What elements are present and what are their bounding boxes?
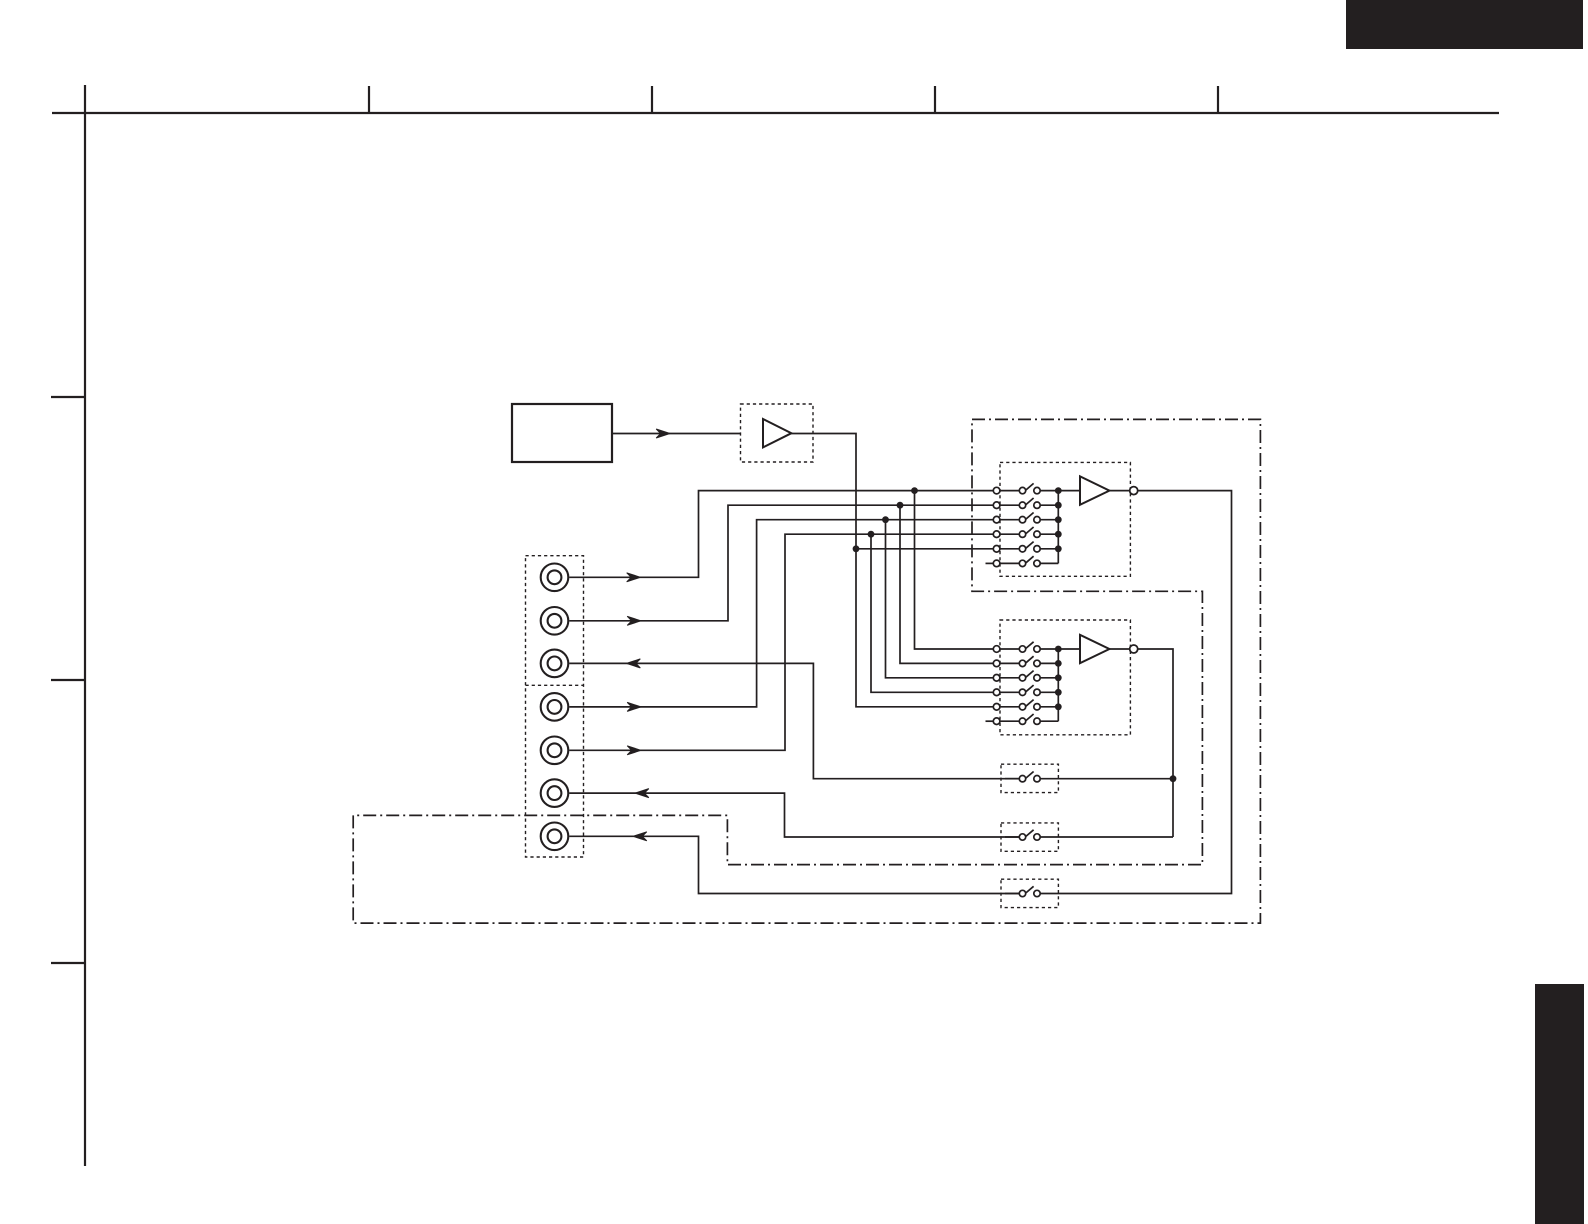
switch S1-1	[1000, 483, 1058, 493]
input selector block S1 (dotted)	[1000, 462, 1130, 576]
RCA jack J4	[541, 693, 569, 721]
pin circle S2 row 1	[993, 646, 1000, 653]
title block (redacted) top right	[1346, 0, 1583, 49]
switch S2-1	[1000, 642, 1058, 652]
pin circle S2 row 6	[993, 718, 1000, 725]
junction & wire: row 1 tap to selector 2 row 1	[911, 487, 993, 649]
op-amp buffer S1	[1058, 476, 1129, 504]
wire: selector 1 output to record switch S5	[1059, 491, 1232, 894]
output pin circle S1	[1130, 487, 1138, 495]
junction: selector 2 output to switch S3	[1170, 775, 1177, 782]
wire: jack 4 to selector 1 row 3	[569, 520, 993, 712]
switch S1-5	[1000, 542, 1058, 552]
pin circle S1 row 5	[993, 546, 1000, 553]
wire: jack 5 to selector 1 row 4	[569, 534, 993, 755]
junction: buffer trunk to selector 1 row 5	[853, 545, 994, 552]
pin circle S1 row 6	[993, 560, 1000, 567]
switch S2-6	[1000, 714, 1058, 724]
pin circle S2 row 2	[993, 660, 1000, 667]
RCA jack J5	[541, 737, 569, 765]
wire: switch S3 to junction	[1005, 778, 1173, 780]
RCA jack J2	[541, 607, 569, 635]
RCA jack J7	[541, 823, 569, 851]
pin circle S1 row 3	[993, 516, 1000, 523]
switch S4 (dotted block)	[1001, 823, 1058, 851]
wire: switch S3 to jack 3 (rec out)	[569, 659, 1019, 779]
wire: switch S4 to jack 6 (rec out)	[569, 789, 1019, 837]
source block U1	[512, 404, 612, 462]
wire: switch S5 right side	[1005, 893, 1059, 895]
pin circle S1 row 2	[993, 502, 1000, 509]
bus junction column S2	[1055, 646, 1062, 722]
wire: switch S4 right side	[1005, 836, 1173, 838]
wire: buffer output down to bank row 5 and selector 2 row 5	[791, 434, 993, 707]
switch S3 (dotted block)	[1001, 764, 1058, 792]
output pin circle S2	[1130, 645, 1138, 653]
jack group divider (dotted)	[526, 684, 584, 686]
input selector block S2 (dotted)	[1000, 620, 1130, 735]
switch S1-4	[1000, 527, 1058, 537]
switch S2-3	[1000, 671, 1058, 681]
switch S1-2	[1000, 498, 1058, 508]
switch S2-2	[1000, 656, 1058, 666]
pin circle S1 row 1	[993, 487, 1000, 494]
junction & wire: row 3 tap to selector 2 row 3	[882, 516, 993, 678]
RCA jack J6	[541, 779, 569, 807]
side tab block (redacted) bottom right	[1535, 984, 1584, 1224]
wire: source block to buffer amp	[612, 429, 740, 438]
buffer amp Q1 (dotted block)	[741, 404, 814, 462]
pin circle S2 row 5	[993, 704, 1000, 711]
switch S1-6	[1000, 556, 1058, 566]
jack group box A (dotted)	[526, 556, 584, 857]
pin circle S2 row 4	[993, 689, 1000, 696]
RCA jack J3	[541, 650, 569, 678]
board outline (dash-dot boundary)	[353, 419, 1260, 923]
RCA jack J1	[541, 564, 569, 592]
junction & wire: row 2 tap to selector 2 row 2	[897, 502, 994, 664]
pin circle S2 row 3	[993, 675, 1000, 682]
switch S1-3	[1000, 513, 1058, 523]
switch S2-5	[1000, 700, 1058, 710]
bus junction column S1	[1055, 487, 1062, 563]
junction & wire: row 4 tap to selector 2 row 4	[868, 531, 994, 693]
wire: switch S5 to jack 7 (rec out)	[569, 832, 1019, 894]
pin circle S1 row 4	[993, 531, 1000, 538]
wire: jack 1 to selector 1 row 1	[569, 491, 993, 582]
switch S5 (dotted block)	[1001, 879, 1058, 907]
wire: jack 2 to selector 1 row 2	[569, 505, 993, 625]
wire: selector 2 output down to switches S3/S4	[1138, 649, 1173, 837]
stub: selector 2 row 6 input	[986, 720, 994, 722]
op-amp buffer S2	[1058, 635, 1129, 663]
stub: selector 1 row 6 input	[986, 562, 994, 564]
switch S2-4	[1000, 685, 1058, 695]
